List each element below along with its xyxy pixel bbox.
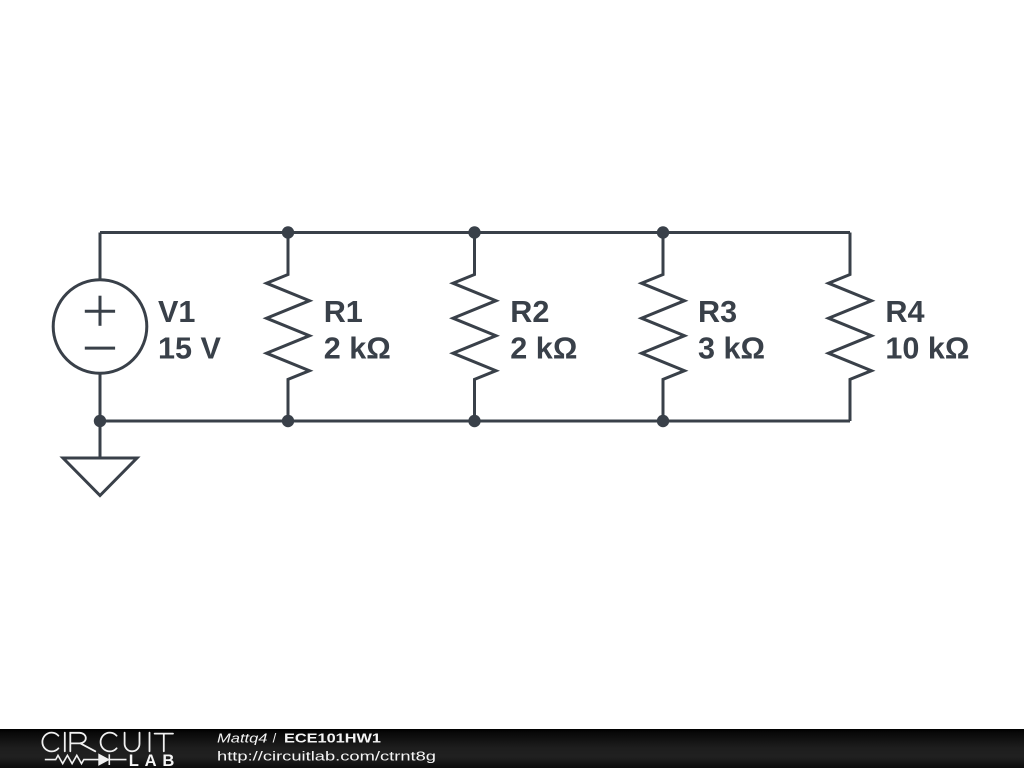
wire bottom rail (node B)	[100, 420, 850, 423]
svg-text:/: /	[273, 731, 277, 746]
resistor R3	[642, 233, 685, 422]
node bottom R3	[657, 415, 669, 427]
svg-text:3 kΩ: 3 kΩ	[698, 332, 765, 366]
wire ground lead	[99, 421, 102, 458]
svg-text:2 kΩ: 2 kΩ	[324, 332, 391, 366]
CircuitLab logo: resistor-diode line + LAB	[45, 754, 127, 765]
V1 plus polarity mark	[85, 310, 115, 313]
resistor R4	[829, 233, 872, 422]
node top R3	[657, 226, 669, 238]
node bottom R1	[282, 415, 294, 427]
CircuitLab logo: CIRCUIT word	[42, 733, 173, 752]
resistor R1	[267, 233, 310, 422]
wire top rail (node A)	[100, 231, 850, 234]
svg-text:LAB: LAB	[129, 751, 175, 768]
node top R1	[282, 226, 294, 238]
svg-text:V1: V1	[158, 295, 195, 329]
svg-text:15 V: 15 V	[158, 332, 222, 366]
ground	[63, 421, 137, 496]
V1 minus polarity mark	[85, 347, 115, 350]
ground triangle symbol	[63, 458, 137, 496]
svg-text:R2: R2	[510, 295, 549, 329]
svg-text:R1: R1	[324, 295, 363, 329]
node bottom V1/ground	[94, 415, 106, 427]
node top R2	[468, 226, 480, 238]
svg-text:Mattq4: Mattq4	[217, 731, 268, 746]
svg-text:ECE101HW1: ECE101HW1	[284, 731, 381, 746]
node dots	[94, 226, 669, 427]
svg-text:R4: R4	[885, 295, 924, 329]
resistor R2	[453, 233, 496, 422]
wire V1 branch vertical (node A to node B)	[99, 233, 102, 422]
svg-text:10 kΩ: 10 kΩ	[885, 332, 969, 366]
voltage source V1	[53, 280, 147, 374]
svg-text:2 kΩ: 2 kΩ	[510, 332, 577, 366]
node bottom R2	[468, 415, 480, 427]
svg-text:http://circuitlab.com/ctrnt8g: http://circuitlab.com/ctrnt8g	[217, 748, 436, 763]
svg-text:R3: R3	[698, 295, 737, 329]
